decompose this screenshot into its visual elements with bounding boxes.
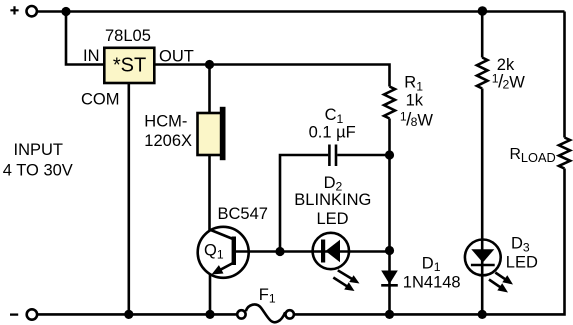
capacitor C1 left plate — [328, 145, 331, 167]
resistor R1 — [384, 87, 395, 119]
wire emitter to bottom rail — [209, 274, 212, 314]
LED D3 arrowhead 1 — [502, 275, 513, 284]
diode D1 wire — [388, 251, 391, 315]
wire bottom rail left — [37, 313, 237, 316]
svg-text:COM: COM — [81, 91, 120, 109]
LED D3 arrow 1 — [495, 273, 508, 282]
svg-text:BLINKING: BLINKING — [294, 191, 371, 209]
svg-text:INPUT: INPUT — [14, 141, 64, 159]
LED D3 arrowhead 2 — [497, 283, 508, 292]
wire right edge lower — [482, 169, 564, 315]
capacitor C1 left wire — [280, 155, 328, 252]
op-amp U1 regulator 78L05 box — [104, 48, 154, 83]
wire bottom rail right — [295, 313, 483, 316]
terminal plus — [27, 6, 37, 16]
fuse F1 element — [246, 304, 285, 322]
svg-text:LED: LED — [506, 254, 538, 272]
fuse F1 left terminal — [237, 310, 245, 318]
buzzer HCM-1206X plate bar — [220, 107, 226, 160]
LED D2 arrowhead 2 — [344, 282, 354, 291]
wire R1 node down to D2 node — [388, 155, 391, 251]
label plus sign — [10, 6, 18, 14]
svg-text:1206X: 1206X — [144, 132, 192, 150]
svg-text:OUT: OUT — [159, 47, 194, 65]
wire base row transistor to D1 — [236, 250, 390, 253]
transistor Q1 emitter arrowhead — [212, 265, 224, 274]
svg-text:4 TO 30V: 4 TO 30V — [3, 162, 73, 180]
svg-text:0.1 µF: 0.1 µF — [309, 124, 356, 142]
label minus sign — [10, 313, 18, 315]
svg-text:1k: 1k — [406, 91, 424, 109]
wire right edge upper — [563, 12, 566, 138]
node junction C1-R1 — [385, 150, 394, 159]
capacitor C1 right wire — [337, 154, 389, 157]
LED D3 cathode bar — [471, 264, 495, 267]
transistor Q1 base bar — [232, 237, 236, 266]
resistor RLOAD — [559, 138, 570, 169]
node junction D3-bottom — [478, 310, 487, 319]
node junction top 2k — [478, 6, 488, 16]
wire top to 2k resistor — [481, 12, 484, 58]
svg-text:IN: IN — [83, 47, 100, 65]
fuse F1 right terminal — [286, 310, 294, 318]
wire regulator OUT rail — [155, 65, 390, 87]
wire COM down to bottom rail — [128, 83, 131, 314]
LED D2 arrow 2 — [333, 278, 349, 288]
LED D2 triangle — [326, 240, 341, 262]
node junction D2-D1 — [385, 246, 394, 255]
wire OUT to buzzer — [208, 65, 211, 114]
capacitor C1 right plate — [335, 145, 338, 167]
svg-text:*ST: *ST — [113, 55, 146, 77]
LED D2 arrowhead 1 — [349, 275, 359, 283]
node junction base-C1 — [275, 247, 284, 256]
svg-text:HCM-: HCM- — [144, 112, 187, 130]
buzzer HCM-1206X body — [198, 113, 223, 155]
wire top rail — [37, 10, 564, 13]
transistor Q1 collector diagonal — [210, 230, 234, 240]
transistor Q1 BC547 circle — [198, 227, 249, 278]
wire buzzer to transistor collector — [208, 155, 211, 230]
node junction COM-bottom — [124, 310, 133, 319]
diode D1 triangle — [381, 271, 398, 285]
LED D2 circle — [313, 233, 349, 269]
node junction OUT-buzzer — [205, 60, 214, 69]
LED D3 arrow 2 — [489, 280, 503, 290]
LED D3 circle — [465, 240, 501, 276]
node junction top-left — [61, 7, 70, 16]
svg-text:1N4148: 1N4148 — [403, 274, 461, 292]
terminal minus — [27, 309, 37, 319]
LED D3 triangle — [471, 249, 494, 262]
transistor Q1 emitter diagonal — [217, 263, 233, 272]
wire R1 to C1 node — [388, 119, 391, 156]
svg-text:BC547: BC547 — [218, 205, 268, 223]
wire input to regulator IN — [66, 12, 104, 65]
diode D1 cathode bar — [381, 284, 398, 287]
LED D2 cathode bar — [321, 240, 325, 263]
LED D2 arrow 1 — [338, 270, 355, 280]
node junction emitter-bottom — [205, 310, 214, 319]
resistor 2k — [477, 58, 488, 89]
node junction D1-bottom — [385, 310, 394, 319]
svg-text:78L05: 78L05 — [105, 27, 151, 45]
svg-text:LED: LED — [317, 210, 349, 228]
wire 2k to D3 and bottom — [481, 89, 484, 315]
